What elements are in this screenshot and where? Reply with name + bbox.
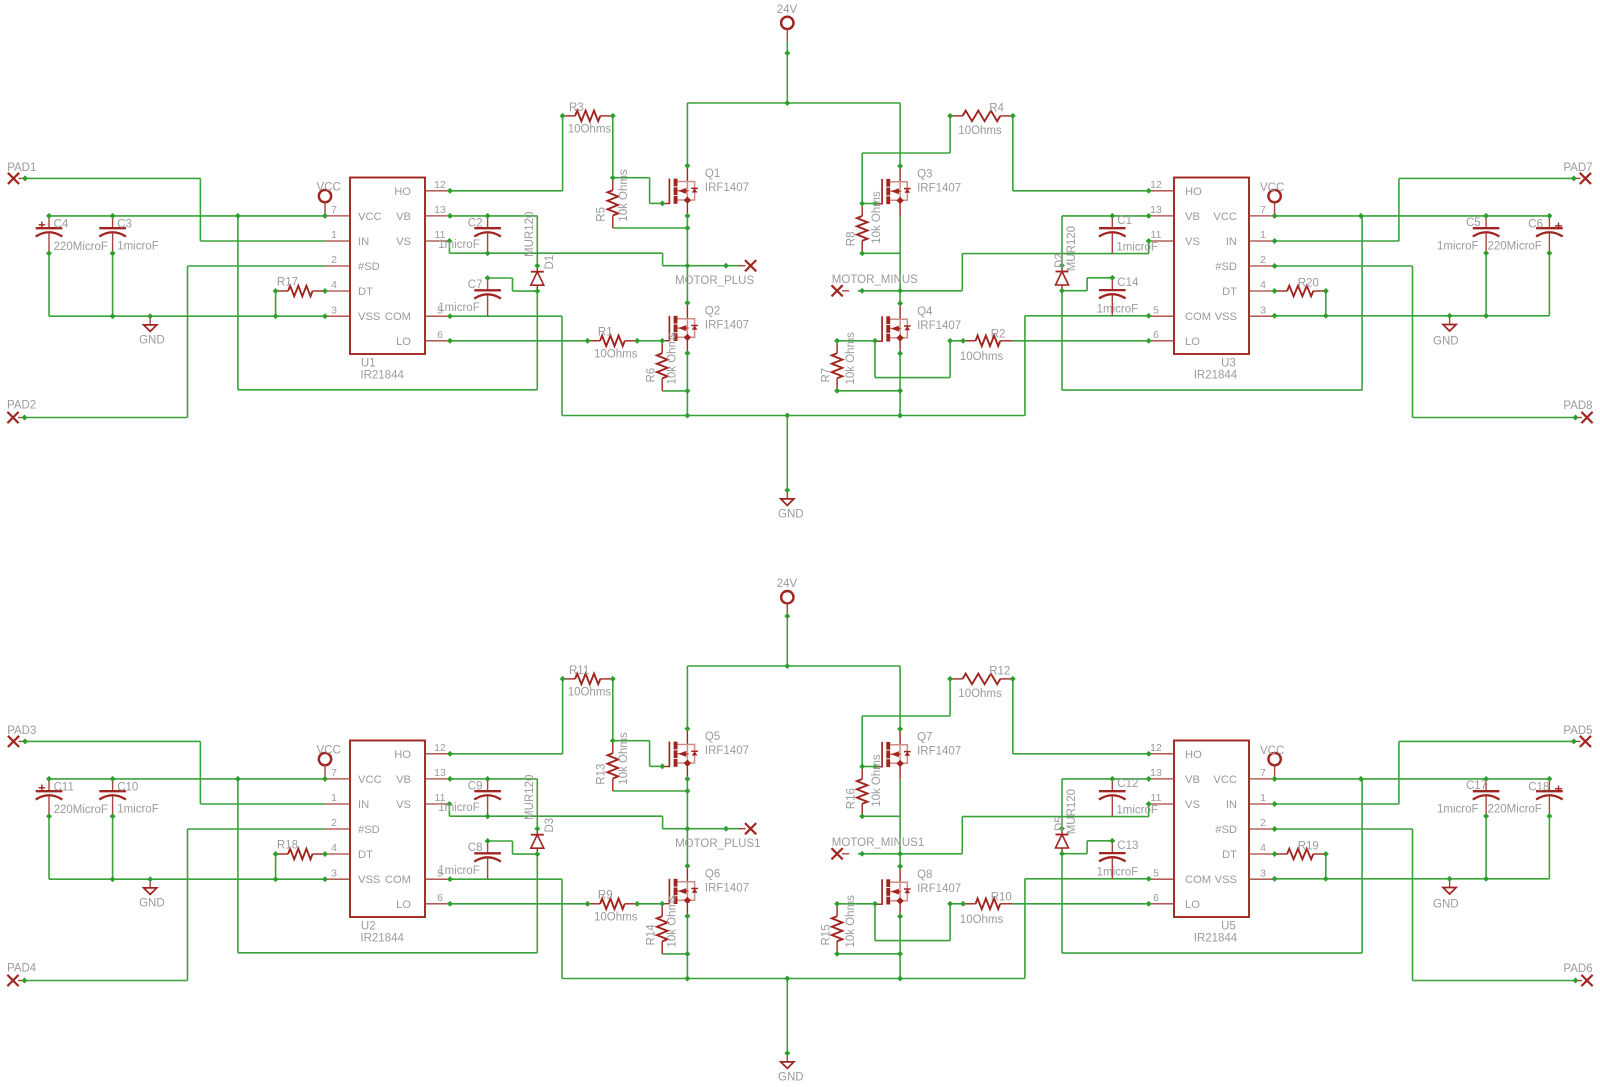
svg-text:R18: R18 <box>277 840 298 852</box>
svg-text:3: 3 <box>331 867 337 879</box>
svg-text:VB: VB <box>1185 774 1200 786</box>
svg-text:IRF1407: IRF1407 <box>705 882 749 894</box>
svg-text:VSS: VSS <box>1215 311 1237 323</box>
svg-text:HO: HO <box>1185 749 1202 761</box>
svg-text:DT: DT <box>358 286 373 298</box>
svg-text:Q4: Q4 <box>917 306 933 318</box>
svg-text:C1: C1 <box>1117 215 1132 227</box>
svg-text:10k Ohms: 10k Ohms <box>618 732 630 785</box>
svg-text:6: 6 <box>1153 892 1159 904</box>
svg-text:R11: R11 <box>569 665 589 677</box>
svg-text:10Ohms: 10Ohms <box>960 914 1004 926</box>
svg-text:R12: R12 <box>989 666 1010 678</box>
svg-text:MUR120: MUR120 <box>524 212 536 257</box>
svg-text:C4: C4 <box>54 218 69 230</box>
svg-text:C8: C8 <box>468 842 483 854</box>
svg-text:IRF1407: IRF1407 <box>705 745 749 757</box>
svg-text:10k Ohms: 10k Ohms <box>871 754 883 807</box>
svg-text:Q6: Q6 <box>705 868 720 880</box>
svg-text:13: 13 <box>434 204 446 216</box>
svg-text:VS: VS <box>396 236 411 248</box>
svg-text:IN: IN <box>1226 236 1237 248</box>
svg-text:7: 7 <box>1260 767 1266 779</box>
svg-text:LO: LO <box>396 336 411 348</box>
svg-text:Q1: Q1 <box>705 168 720 180</box>
svg-text:2: 2 <box>331 817 337 829</box>
svg-text:IN: IN <box>358 236 369 248</box>
svg-text:1microF: 1microF <box>1116 804 1158 816</box>
svg-text:6: 6 <box>1153 329 1159 341</box>
svg-text:#SD: #SD <box>358 824 380 836</box>
svg-text:VCC: VCC <box>1260 182 1284 194</box>
svg-text:PAD3: PAD3 <box>7 725 36 737</box>
svg-text:4: 4 <box>331 842 337 854</box>
svg-text:Q7: Q7 <box>917 732 932 744</box>
svg-text:HO: HO <box>394 186 411 198</box>
svg-text:MUR120: MUR120 <box>1066 226 1078 271</box>
svg-text:PAD2: PAD2 <box>7 400 36 412</box>
svg-text:VCC: VCC <box>358 774 382 786</box>
svg-text:PAD5: PAD5 <box>1563 725 1592 737</box>
svg-text:R1: R1 <box>598 327 613 339</box>
svg-text:7: 7 <box>331 204 337 216</box>
svg-text:C13: C13 <box>1117 840 1138 852</box>
svg-text:R3: R3 <box>569 102 584 114</box>
svg-text:VB: VB <box>396 774 411 786</box>
svg-text:10Ohms: 10Ohms <box>958 688 1002 700</box>
svg-text:VCC: VCC <box>358 211 382 223</box>
svg-text:3: 3 <box>1260 304 1266 316</box>
svg-text:4: 4 <box>1260 279 1266 291</box>
svg-text:U5: U5 <box>1221 921 1236 933</box>
svg-text:GND: GND <box>778 1072 804 1084</box>
svg-text:MOTOR_MINUS1: MOTOR_MINUS1 <box>832 837 924 849</box>
svg-text:11: 11 <box>1151 792 1162 804</box>
svg-text:R17: R17 <box>277 277 298 289</box>
svg-text:IRF1407: IRF1407 <box>705 319 749 331</box>
svg-text:PAD8: PAD8 <box>1563 400 1592 412</box>
svg-text:GND: GND <box>1433 336 1459 348</box>
svg-text:C7: C7 <box>468 279 483 291</box>
svg-text:12: 12 <box>434 179 446 191</box>
svg-text:#SD: #SD <box>358 261 380 273</box>
svg-text:C5: C5 <box>1466 217 1481 229</box>
svg-text:VCC: VCC <box>1213 774 1237 786</box>
svg-text:HO: HO <box>1185 186 1202 198</box>
svg-text:220MicroF: 220MicroF <box>54 241 108 253</box>
svg-text:C11: C11 <box>54 781 74 793</box>
svg-text:10Ohms: 10Ohms <box>958 125 1002 137</box>
svg-text:13: 13 <box>1150 767 1162 779</box>
svg-text:COM: COM <box>1185 311 1211 323</box>
svg-text:220MicroF: 220MicroF <box>54 804 108 816</box>
svg-text:R19: R19 <box>1298 841 1319 853</box>
svg-text:R8: R8 <box>845 231 857 246</box>
svg-text:10k Ohms: 10k Ohms <box>845 895 857 948</box>
svg-text:13: 13 <box>1150 204 1162 216</box>
svg-text:PAD6: PAD6 <box>1563 963 1592 975</box>
svg-text:Q3: Q3 <box>917 169 932 181</box>
svg-text:R20: R20 <box>1298 278 1319 290</box>
svg-text:GND: GND <box>139 898 165 910</box>
svg-text:10Ohms: 10Ohms <box>594 349 638 361</box>
svg-text:10Ohms: 10Ohms <box>568 687 612 699</box>
svg-text:DT: DT <box>1222 286 1237 298</box>
svg-text:VSS: VSS <box>358 874 380 886</box>
svg-text:IR21844: IR21844 <box>1194 932 1238 944</box>
svg-text:COM: COM <box>385 874 411 886</box>
svg-text:COM: COM <box>1185 874 1211 886</box>
svg-text:1microF: 1microF <box>438 239 480 251</box>
svg-text:C12: C12 <box>1117 778 1138 790</box>
svg-text:1microF: 1microF <box>438 802 480 814</box>
svg-text:VSS: VSS <box>1215 874 1237 886</box>
svg-text:D2: D2 <box>1054 253 1066 268</box>
svg-text:24V: 24V <box>777 578 798 590</box>
svg-text:Q8: Q8 <box>917 869 932 881</box>
svg-text:R16: R16 <box>845 788 857 809</box>
svg-text:4: 4 <box>331 279 337 291</box>
svg-text:VS: VS <box>396 799 411 811</box>
svg-text:1: 1 <box>1260 229 1266 241</box>
svg-text:#SD: #SD <box>1215 261 1237 273</box>
svg-text:VB: VB <box>396 211 411 223</box>
svg-text:PAD1: PAD1 <box>7 162 36 174</box>
svg-text:COM: COM <box>385 311 411 323</box>
svg-text:10k Ohms: 10k Ohms <box>667 332 679 385</box>
svg-text:6: 6 <box>437 329 443 341</box>
svg-text:1microF: 1microF <box>117 241 159 253</box>
svg-text:2: 2 <box>331 254 337 266</box>
svg-text:2: 2 <box>1260 817 1266 829</box>
svg-text:IN: IN <box>358 799 369 811</box>
svg-text:10k Ohms: 10k Ohms <box>667 895 679 948</box>
svg-text:IRF1407: IRF1407 <box>705 182 749 194</box>
svg-text:C14: C14 <box>1117 277 1139 289</box>
svg-text:U1: U1 <box>361 358 376 370</box>
svg-text:1microF: 1microF <box>1437 804 1479 816</box>
svg-text:C10: C10 <box>117 781 138 793</box>
svg-text:LO: LO <box>396 899 411 911</box>
svg-text:10Ohms: 10Ohms <box>594 912 638 924</box>
svg-text:1microF: 1microF <box>1116 241 1158 253</box>
svg-text:VS: VS <box>1185 799 1200 811</box>
svg-text:1: 1 <box>331 229 337 241</box>
svg-text:7: 7 <box>331 767 337 779</box>
svg-text:1microF: 1microF <box>438 302 480 314</box>
svg-text:GND: GND <box>778 509 804 521</box>
svg-text:R10: R10 <box>991 892 1012 904</box>
svg-text:24V: 24V <box>777 4 798 16</box>
svg-text:IRF1407: IRF1407 <box>917 320 961 332</box>
svg-text:IRF1407: IRF1407 <box>917 883 961 895</box>
svg-text:R6: R6 <box>646 368 658 383</box>
svg-text:1microF: 1microF <box>117 804 159 816</box>
svg-text:HO: HO <box>394 749 411 761</box>
svg-text:VCC: VCC <box>1213 211 1237 223</box>
svg-text:12: 12 <box>434 742 446 754</box>
svg-text:D3: D3 <box>544 818 556 833</box>
svg-text:PAD4: PAD4 <box>7 963 37 975</box>
svg-text:GND: GND <box>139 335 165 347</box>
svg-text:VCC: VCC <box>317 744 341 756</box>
svg-text:12: 12 <box>1150 179 1162 191</box>
svg-text:2: 2 <box>1260 254 1266 266</box>
svg-text:10k Ohms: 10k Ohms <box>845 332 857 385</box>
svg-text:VSS: VSS <box>358 311 380 323</box>
svg-text:LO: LO <box>1185 899 1200 911</box>
svg-text:4: 4 <box>1260 842 1266 854</box>
svg-text:MUR120: MUR120 <box>1066 789 1078 834</box>
svg-text:DT: DT <box>1222 849 1237 861</box>
svg-text:1microF: 1microF <box>1437 241 1479 253</box>
svg-text:IRF1407: IRF1407 <box>917 183 961 195</box>
svg-text:IR21844: IR21844 <box>360 369 404 381</box>
svg-text:R14: R14 <box>646 924 658 946</box>
svg-text:C17: C17 <box>1466 780 1487 792</box>
svg-text:R7: R7 <box>821 368 833 383</box>
svg-text:R9: R9 <box>598 890 613 902</box>
svg-text:C6: C6 <box>1528 219 1543 231</box>
svg-text:3: 3 <box>1260 867 1266 879</box>
svg-text:IN: IN <box>1226 799 1237 811</box>
svg-text:1microF: 1microF <box>1097 303 1139 315</box>
svg-text:12: 12 <box>1150 742 1162 754</box>
svg-text:10Ohms: 10Ohms <box>960 351 1004 363</box>
svg-text:VCC: VCC <box>317 181 341 193</box>
svg-text:IRF1407: IRF1407 <box>917 746 961 758</box>
svg-text:IR21844: IR21844 <box>360 932 404 944</box>
svg-text:1: 1 <box>1260 792 1266 804</box>
svg-text:R5: R5 <box>596 207 608 222</box>
svg-text:C3: C3 <box>117 218 132 230</box>
svg-text:R15: R15 <box>821 924 833 945</box>
svg-text:1microF: 1microF <box>1097 866 1139 878</box>
svg-text:U3: U3 <box>1221 358 1236 370</box>
svg-text:10Ohms: 10Ohms <box>568 124 612 136</box>
svg-text:10k Ohms: 10k Ohms <box>618 169 630 222</box>
svg-text:C18: C18 <box>1528 782 1549 794</box>
svg-text:MUR120: MUR120 <box>524 775 536 820</box>
svg-text:VB: VB <box>1185 211 1200 223</box>
svg-text:PAD7: PAD7 <box>1563 162 1592 174</box>
svg-text:R13: R13 <box>596 764 608 785</box>
svg-text:LO: LO <box>1185 336 1200 348</box>
svg-text:#SD: #SD <box>1215 824 1237 836</box>
svg-text:D1: D1 <box>544 255 556 270</box>
svg-text:R2: R2 <box>991 329 1006 341</box>
svg-text:U2: U2 <box>361 921 376 933</box>
svg-text:MOTOR_PLUS1: MOTOR_PLUS1 <box>675 838 760 850</box>
svg-text:1: 1 <box>331 792 337 804</box>
svg-text:1microF: 1microF <box>438 865 480 877</box>
svg-text:MOTOR_PLUS: MOTOR_PLUS <box>675 275 754 287</box>
svg-text:10k Ohms: 10k Ohms <box>871 191 883 244</box>
svg-text:3: 3 <box>331 304 337 316</box>
svg-text:Q5: Q5 <box>705 731 720 743</box>
svg-text:13: 13 <box>434 767 446 779</box>
svg-text:MOTOR_MINUS: MOTOR_MINUS <box>832 274 918 286</box>
svg-text:220MicroF: 220MicroF <box>1488 241 1542 253</box>
svg-text:D5: D5 <box>1054 816 1066 831</box>
svg-text:Q2: Q2 <box>705 305 720 317</box>
svg-text:DT: DT <box>358 849 373 861</box>
svg-text:5: 5 <box>1153 867 1159 879</box>
svg-text:6: 6 <box>437 892 443 904</box>
svg-text:R4: R4 <box>989 103 1004 115</box>
svg-text:IR21844: IR21844 <box>1194 369 1238 381</box>
svg-text:VCC: VCC <box>1260 745 1284 757</box>
svg-text:11: 11 <box>1151 229 1162 241</box>
svg-text:C2: C2 <box>468 217 483 229</box>
svg-text:7: 7 <box>1260 204 1266 216</box>
svg-text:GND: GND <box>1433 899 1459 911</box>
svg-text:C9: C9 <box>468 780 483 792</box>
svg-text:VS: VS <box>1185 236 1200 248</box>
svg-text:5: 5 <box>1153 304 1159 316</box>
svg-text:220MicroF: 220MicroF <box>1488 804 1542 816</box>
